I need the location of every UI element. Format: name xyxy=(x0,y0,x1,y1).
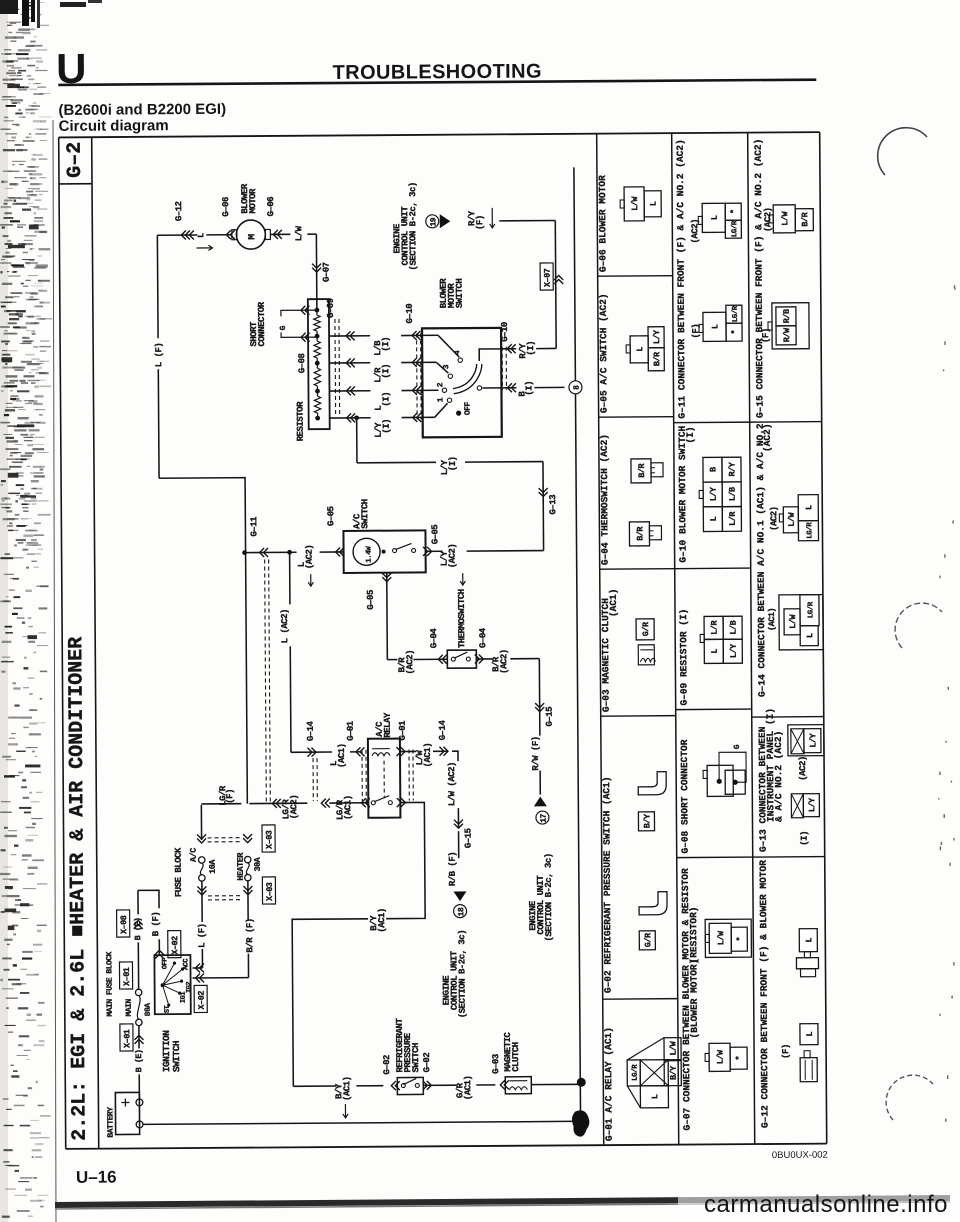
svg-text:30A: 30A xyxy=(253,856,263,871)
svg-text:carmanualsonline.info: carmanualsonline.info xyxy=(704,1191,948,1218)
svg-text:10A: 10A xyxy=(208,859,218,874)
svg-text:& A/C NO.2 (AC2): & A/C NO.2 (AC2) xyxy=(773,731,785,822)
svg-text:G–14 CONNECTOR BETWEEN A/C NO.: G–14 CONNECTOR BETWEEN A/C NO.1 (AC1) & … xyxy=(755,423,768,697)
svg-text:L/R: L/R xyxy=(710,620,720,635)
svg-text:(F): (F) xyxy=(225,789,235,804)
svg-text:MAIN FUSE BLOCK: MAIN FUSE BLOCK xyxy=(105,951,114,1016)
svg-text:G–06: G–06 xyxy=(221,197,231,217)
svg-text:B (F): B (F) xyxy=(151,912,161,937)
svg-text:G–01: G–01 xyxy=(398,720,408,741)
svg-text:B/Y: B/Y xyxy=(642,813,652,828)
svg-text:G–04: G–04 xyxy=(429,628,439,649)
svg-text:L/W: L/W xyxy=(780,211,790,226)
svg-text:G–02 REFRIGERANT PRESSURE SWIT: G–02 REFRIGERANT PRESSURE SWITCH (AC1) xyxy=(601,776,614,993)
svg-text:G–08: G–08 xyxy=(297,353,307,373)
svg-text:X–03: X–03 xyxy=(265,882,275,901)
svg-text:0BU0UX-002: 0BU0UX-002 xyxy=(772,1150,828,1161)
svg-text:SWITCH: SWITCH xyxy=(171,1040,182,1072)
svg-text:(AC1): (AC1) xyxy=(767,608,777,631)
svg-text:LG/R: LG/R xyxy=(732,305,740,322)
svg-text:MAIN: MAIN xyxy=(125,999,134,1017)
svg-text:G–09: G–09 xyxy=(326,298,336,318)
svg-text:G–05: G–05 xyxy=(326,506,336,526)
svg-text:(I): (I) xyxy=(800,831,810,846)
svg-text:L: L xyxy=(805,1031,815,1036)
svg-text:X–02: X–02 xyxy=(170,936,180,955)
svg-text:L: L xyxy=(804,937,814,942)
svg-text:G–04: G–04 xyxy=(478,627,488,648)
svg-text:G–15: G–15 xyxy=(464,828,474,848)
svg-text:L/Y: L/Y xyxy=(709,486,719,501)
svg-text:(I): (I) xyxy=(382,419,392,434)
svg-text:G–05 A/C SWITCH (AC2): G–05 A/C SWITCH (AC2) xyxy=(598,293,610,413)
svg-text:(I): (I) xyxy=(685,426,696,443)
svg-text:(I): (I) xyxy=(381,364,391,379)
svg-text:L: L xyxy=(805,633,815,638)
svg-text:CONNECTOR: CONNECTOR xyxy=(257,301,267,346)
svg-text:18: 18 xyxy=(457,907,466,916)
svg-text:B/R: B/R xyxy=(637,463,647,478)
svg-text:(AC1): (AC1) xyxy=(463,1076,473,1101)
svg-text:X–02: X–02 xyxy=(197,991,207,1010)
svg-text:RELAY: RELAY xyxy=(383,712,393,738)
svg-text:G–02: G–02 xyxy=(422,1053,432,1073)
svg-text:G–07: G–07 xyxy=(322,262,332,282)
svg-text:G–10: G–10 xyxy=(500,322,510,342)
svg-text:(I): (I) xyxy=(526,341,536,356)
svg-text:X–07: X–07 xyxy=(543,268,553,287)
svg-text:G–06 BLOWER MOTOR: G–06 BLOWER MOTOR xyxy=(597,175,609,272)
svg-text:(RESISTOR): (RESISTOR) xyxy=(688,906,699,963)
svg-text:L (F): L (F) xyxy=(197,923,207,948)
svg-text:(AC1): (AC1) xyxy=(342,1076,352,1101)
svg-text:G/R: G/R xyxy=(641,621,651,636)
svg-text:CLUTCH: CLUTCH xyxy=(511,1042,521,1072)
svg-text:R/B: R/B xyxy=(782,309,792,323)
svg-text:*: * xyxy=(730,329,740,334)
svg-text:G–03: G–03 xyxy=(491,1054,501,1074)
svg-text:SWITCH: SWITCH xyxy=(360,499,370,529)
svg-text:(AC1): (AC1) xyxy=(377,908,387,933)
svg-text:*: * xyxy=(729,209,739,214)
svg-text:X–08: X–08 xyxy=(119,915,129,934)
svg-text:IG2: IG2 xyxy=(186,982,194,993)
svg-text:(AC2): (AC2) xyxy=(499,649,509,674)
svg-text:(AC1): (AC1) xyxy=(608,589,619,618)
svg-text:(AC2): (AC2) xyxy=(289,795,299,820)
svg-text:Circuit diagram: Circuit diagram xyxy=(59,117,169,135)
svg-text:L: L xyxy=(804,505,814,510)
svg-text:(AC1): (AC1) xyxy=(423,743,433,768)
svg-text:L (AC2): L (AC2) xyxy=(280,609,290,643)
svg-text:B/R: B/R xyxy=(652,351,662,366)
svg-text:(AC2): (AC2) xyxy=(448,544,458,569)
svg-text:G–06: G–06 xyxy=(266,197,276,217)
svg-text:R/W (F): R/W (F) xyxy=(531,736,541,770)
svg-text:G–10: G–10 xyxy=(405,304,415,324)
svg-text:(AC2): (AC2) xyxy=(762,423,773,452)
svg-text:80A: 80A xyxy=(144,1003,153,1017)
svg-text:(SECTION B-2c, 3c): (SECTION B-2c, 3c) xyxy=(457,930,468,1018)
svg-text:LG/R: LG/R xyxy=(632,1064,640,1081)
svg-text:G–12: G–12 xyxy=(174,201,184,221)
svg-text:(B2600i and B2200 EGI): (B2600i and B2200 EGI) xyxy=(58,101,226,119)
svg-text:ST: ST xyxy=(164,1005,172,1013)
svg-text:G–14: G–14 xyxy=(438,720,448,741)
svg-text:(F): (F) xyxy=(781,1044,791,1059)
svg-text:L/W: L/W xyxy=(716,930,726,945)
svg-text:SWITCH: SWITCH xyxy=(455,279,465,309)
svg-text:LG/R: LG/R xyxy=(806,522,814,539)
svg-text:(AC2): (AC2) xyxy=(769,506,779,531)
svg-text:17: 17 xyxy=(540,813,549,822)
svg-text:G–01 A/C RELAY (AC1): G–01 A/C RELAY (AC1) xyxy=(603,1027,615,1141)
svg-text:1: 1 xyxy=(437,397,446,402)
svg-text:L: L xyxy=(711,324,721,329)
svg-text:B: B xyxy=(709,467,719,472)
svg-text:OFF: OFF xyxy=(161,958,169,969)
svg-text:X–01: X–01 xyxy=(122,967,132,986)
svg-text:G–10 BLOWER MOTOR SWITCH: G–10 BLOWER MOTOR SWITCH xyxy=(677,425,689,562)
svg-text:G–12 CONNECTOR BETWEEN FRONT (: G–12 CONNECTOR BETWEEN FRONT (F) & BLOWE… xyxy=(758,860,771,1128)
svg-text:G/R: G/R xyxy=(643,932,653,947)
svg-text:(SECTION B-2c, 3c): (SECTION B-2c, 3c) xyxy=(544,853,555,941)
svg-text:(AC2): (AC2) xyxy=(798,756,808,781)
svg-text:LG/R: LG/R xyxy=(731,220,739,237)
svg-text:B (E): B (E) xyxy=(134,1049,144,1072)
svg-text:(AC1): (AC1) xyxy=(343,795,353,820)
svg-text:L: L xyxy=(635,347,645,352)
svg-text:(AC2): (AC2) xyxy=(763,207,773,232)
svg-text:L/W: L/W xyxy=(787,511,797,526)
svg-text:8: 8 xyxy=(573,385,582,390)
svg-text:X–03: X–03 xyxy=(265,830,275,849)
svg-text:(I): (I) xyxy=(381,392,391,407)
svg-text:R/B (F): R/B (F) xyxy=(448,852,458,886)
svg-text:(BLOWER MOTOR): (BLOWER MOTOR) xyxy=(688,959,700,1039)
svg-text:(AC2): (AC2) xyxy=(405,650,415,675)
svg-text:R/Y: R/Y xyxy=(727,461,737,476)
svg-text:L/Y: L/Y xyxy=(808,732,818,747)
svg-text:L/Y: L/Y xyxy=(652,329,662,344)
svg-text:B/R: B/R xyxy=(635,526,645,541)
svg-text:U–16: U–16 xyxy=(76,1168,117,1187)
svg-text:1.4W: 1.4W xyxy=(366,546,374,563)
svg-text:L/W: L/W xyxy=(669,1040,679,1055)
svg-text:(AC1): (AC1) xyxy=(337,743,347,768)
svg-text:G–15: G–15 xyxy=(545,707,555,727)
svg-text:L: L xyxy=(710,215,720,220)
svg-text:G–05: G–05 xyxy=(430,525,440,545)
svg-text:OFF: OFF xyxy=(464,401,473,415)
svg-text:(I): (I) xyxy=(448,456,458,471)
svg-text:M: M xyxy=(246,234,257,240)
svg-text:L/W: L/W xyxy=(716,1049,726,1064)
svg-text:G–14: G–14 xyxy=(306,720,316,741)
svg-text:(I): (I) xyxy=(524,381,534,396)
svg-text:L/B: L/B xyxy=(729,620,739,634)
svg-text:*: * xyxy=(735,1055,745,1060)
svg-text:L: L xyxy=(709,516,719,521)
svg-text:L/R: L/R xyxy=(728,511,738,526)
svg-text:(I): (I) xyxy=(381,337,391,352)
svg-text:2: 2 xyxy=(436,382,445,387)
svg-text:G–09 RESISTOR (I): G–09 RESISTOR (I) xyxy=(678,609,690,706)
svg-text:L/W: L/W xyxy=(630,196,640,211)
svg-text:MOTOR: MOTOR xyxy=(248,188,258,214)
svg-text:X–01: X–01 xyxy=(122,1029,132,1048)
svg-text:B/R: B/R xyxy=(800,211,810,226)
svg-text:G–15 CONNECTOR BETWEEN FRONT (: G–15 CONNECTOR BETWEEN FRONT (F) & A/C N… xyxy=(753,139,766,418)
svg-text:(F): (F) xyxy=(475,215,485,230)
svg-text:G–11: G–11 xyxy=(249,516,259,537)
svg-text:G–05: G–05 xyxy=(366,590,376,610)
svg-text:(AC2): (AC2) xyxy=(305,545,315,570)
svg-text:4: 4 xyxy=(453,350,462,355)
svg-text:G: G xyxy=(279,325,288,330)
svg-text:LG/R: LG/R xyxy=(807,601,815,618)
svg-text:A/C: A/C xyxy=(189,848,199,862)
svg-text:2.2L: EGI & 2.6L ■HEATER & AIR: 2.2L: EGI & 2.6L ■HEATER & AIR CONDITION… xyxy=(65,637,92,1141)
svg-text:G: G xyxy=(733,744,742,749)
svg-text:*: * xyxy=(735,936,745,941)
svg-text:B/Y: B/Y xyxy=(669,1065,679,1080)
svg-text:BATTERY: BATTERY xyxy=(106,1107,115,1138)
svg-text:THERMOSWITCH: THERMOSWITCH xyxy=(457,589,467,648)
svg-text:B/R (F): B/R (F) xyxy=(245,918,255,952)
svg-text:L/Y: L/Y xyxy=(807,797,817,812)
svg-text:G–02: G–02 xyxy=(382,1055,392,1075)
svg-text:(AC2): (AC2) xyxy=(690,219,700,244)
svg-text:L/W: L/W xyxy=(294,225,304,241)
svg-text:19: 19 xyxy=(429,217,438,226)
svg-text:L/W (AC2): L/W (AC2) xyxy=(447,762,457,806)
svg-text:FUSE BLOCK: FUSE BLOCK xyxy=(174,847,184,897)
svg-text:L/W: L/W xyxy=(788,613,798,628)
svg-text:L: L xyxy=(710,649,720,654)
svg-text:G–08 SHORT CONNECTOR: G–08 SHORT CONNECTOR xyxy=(679,739,691,853)
svg-text:R/W: R/W xyxy=(782,327,792,342)
svg-text:G–13: G–13 xyxy=(548,495,558,515)
svg-text:G–04 THERMOSWITCH (AC2): G–04 THERMOSWITCH (AC2) xyxy=(599,434,611,565)
svg-text:L: L xyxy=(650,1094,660,1099)
svg-text:L: L xyxy=(196,233,206,238)
svg-text:L/B: L/B xyxy=(728,487,738,501)
svg-text:HEATER: HEATER xyxy=(236,852,246,881)
svg-text:L (F): L (F) xyxy=(154,343,164,368)
svg-text:3: 3 xyxy=(442,364,451,369)
svg-text:RESISTOR: RESISTOR xyxy=(296,401,306,441)
svg-text:G–11 CONNECTOR BETWEEN FRONT (: G–11 CONNECTOR BETWEEN FRONT (F) & A/C N… xyxy=(675,139,688,418)
svg-text:(SECTION B-2c, 3c): (SECTION B-2c, 3c) xyxy=(408,182,419,270)
svg-text:G–2: G–2 xyxy=(64,142,87,178)
svg-text:SWITCH: SWITCH xyxy=(411,1043,421,1073)
svg-text:L: L xyxy=(649,201,659,206)
svg-text:L/Y: L/Y xyxy=(729,643,739,658)
svg-text:G–01: G–01 xyxy=(346,720,356,741)
